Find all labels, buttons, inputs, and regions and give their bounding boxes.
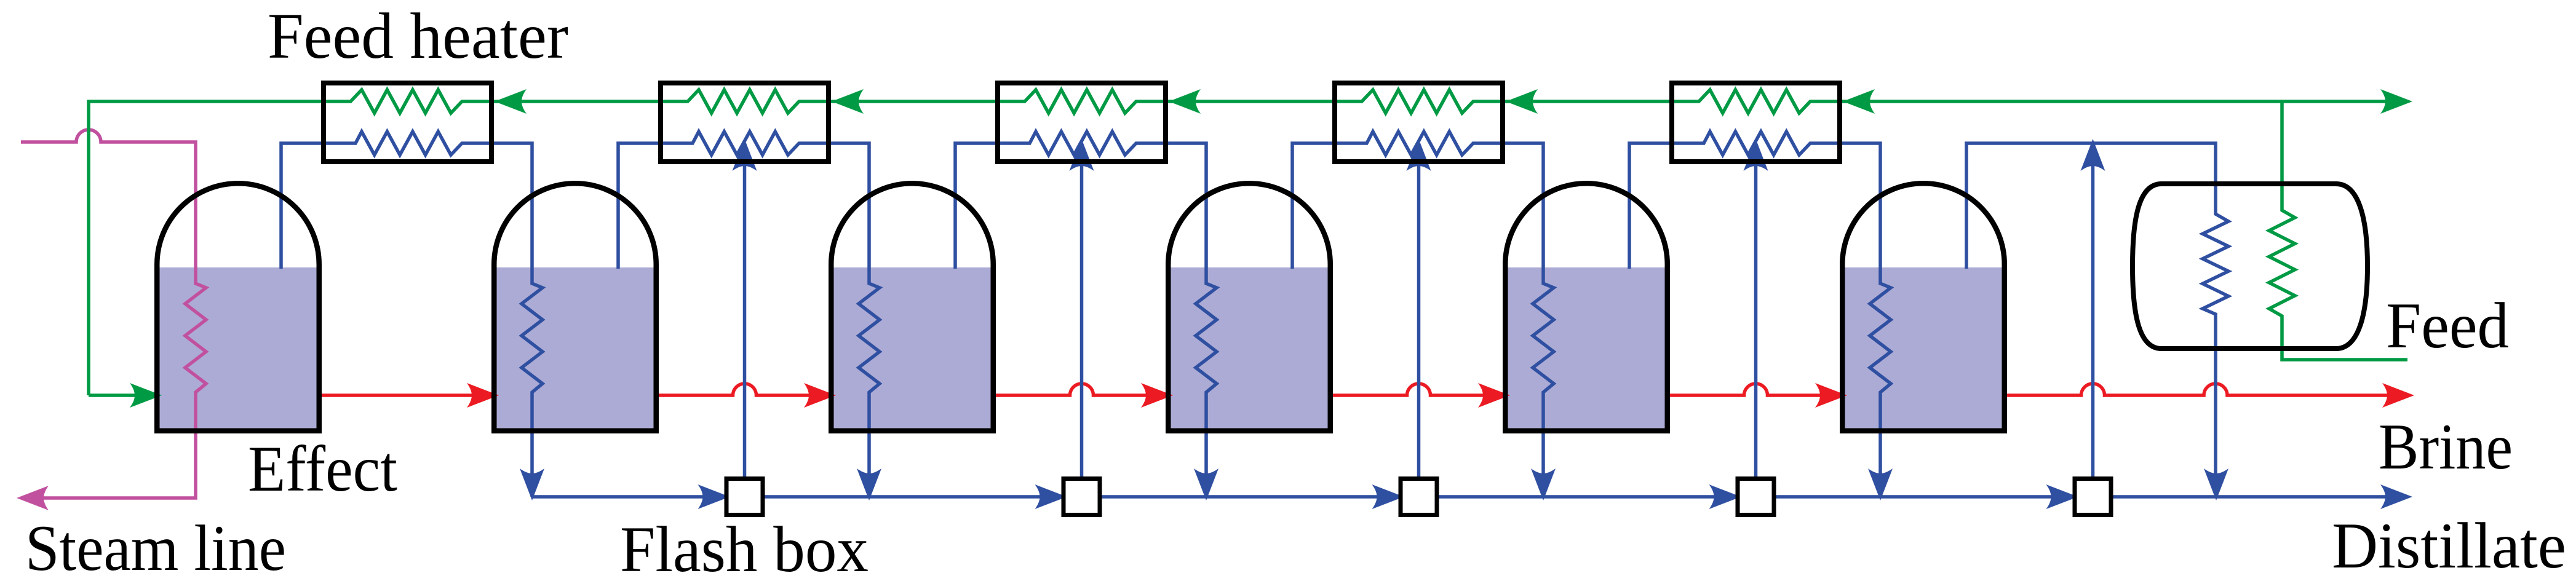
arrow: green feed into feed heater 2 [832,89,864,114]
feed heater 4 box [1335,83,1503,162]
arrow: green feed into feed heater 5 [1843,89,1875,114]
arrow: blue distillate into flash box 5 [2046,484,2078,509]
svg-text:Feed heater: Feed heater [268,0,568,72]
svg-text:Effect: Effect [248,433,397,505]
effect 3 vessel outline [831,183,993,431]
wire: blue distillate header line [532,495,2405,499]
arrow: green vapor into effect 1 [130,383,162,408]
wire: blue riser from flash box 4 up to heater coil [1754,148,1758,480]
svg-text:Distillate: Distillate [2332,510,2566,581]
arrow: blue vapor up from flash box 5 [2081,139,2105,171]
arrow: green cooling water reject (right) [2380,89,2412,114]
arrow: blue condensate down into distillate line (5) [1868,468,1893,500]
condenser vessel outline [2133,184,2367,349]
wire: magenta steam line with hop over green, coil in effect 1, return to left arrow [21,130,206,498]
feed heater 2 box [661,83,829,162]
effect 6 vessel outline [1842,183,2005,431]
arrow: red brine into effect 6 [1815,383,1847,408]
wire: blue riser from flash box 1 up to heater coil [743,148,747,480]
svg-text:Flash box: Flash box [620,513,869,581]
wire: blue riser from flash box 2 up to heater coil [1080,148,1084,480]
effect 5 vessel outline [1505,183,1668,431]
arrow: red brine into effect 5 [1478,383,1510,408]
wire: blue vapor line effect 2 -> feed heater 2 coil -> coil in effect 3 -> distillate [618,132,880,497]
wire: red brine line between effects with hops [319,384,2407,395]
arrow: green feed into feed heater 1 [495,89,527,114]
flash box 4 [1738,479,1774,515]
arrow: blue distillate into flash box 3 [1372,484,1404,509]
svg-text:Brine: Brine [2379,411,2513,483]
wire: green inlet into effect 1 [89,393,155,397]
effect 3 brine liquid fill [834,267,991,429]
flash box 2 [1063,479,1100,515]
arrow: green feed into feed heater 4 [1506,89,1538,114]
wire: blue vapor line effect 1 -> feed heater 1 coil -> coil in effect 2 -> distillate [281,132,543,497]
arrow: red brine into effect 3 [804,383,836,408]
node: green junction down to condenser coil and feed inlet [2269,101,2407,360]
effect 4 vessel outline [1168,183,1330,431]
arrow: blue vapor up from flash box 4 [1744,139,1768,171]
arrow: steam line outlet (left) [17,486,49,510]
wire: green feed line from effect 1 inlet up and across all feed heaters [89,90,2405,395]
arrow: blue condensate down into distillate line (3) [1194,468,1218,500]
arrow: red brine into effect 2 [467,383,499,408]
effect 1 brine liquid fill [160,267,317,429]
arrow: blue condensate down into distillate line (6) [2204,468,2228,500]
arrow: blue distillate into flash box 2 [1035,484,1067,509]
effect 2 vessel outline [494,183,656,431]
flash box 1 [726,479,763,515]
wire: blue riser from flash box 3 up to heater coil [1417,148,1421,480]
arrow: blue vapor up from flash box 1 [733,139,757,171]
arrow: red brine into effect 4 [1141,383,1173,408]
effect 5 brine liquid fill [1508,267,1665,429]
wire: blue vapor line effect 4 -> feed heater 4 coil -> coil in effect 5 -> distillate [1292,132,1554,497]
arrow: blue distillate into flash box 4 [1709,484,1741,509]
feed heater 1 box [324,83,491,162]
feed heater 5 box [1672,83,1840,162]
arrow: blue condensate down into distillate line (4) [1531,468,1556,500]
effect 4 brine liquid fill [1171,267,1328,429]
effect 6 brine liquid fill [1845,267,2002,429]
wire: blue vapor line effect 6 -> condenser coil -> distillate [1966,143,2228,497]
svg-text:Feed: Feed [2386,290,2509,362]
flash box 3 [1401,479,1437,515]
wire: blue vapor line effect 3 -> feed heater 3 coil -> coil in effect 4 -> distillate [955,132,1217,497]
wire: blue vapor line effect 5 -> feed heater 5 coil -> coil in effect 6 -> distillate [1629,132,1891,497]
arrow: blue vapor up from flash box 3 [1407,139,1431,171]
effect 2 brine liquid fill [497,267,654,429]
flash box 5 [2075,479,2111,515]
arrow: blue condensate down into distillate line (2) [857,468,881,500]
effect 1 vessel outline [157,183,319,430]
arrow: blue condensate down into distillate line (1) [520,468,544,500]
arrow: green feed into feed heater 3 [1169,89,1201,114]
arrow: blue distillate outlet (right) [2380,484,2412,509]
wire: blue riser from flash box 5 up to heater coil [2091,148,2095,480]
feed heater 3 box [998,83,1166,162]
arrow: blue vapor up from flash box 2 [1070,139,1094,171]
arrow: blue distillate into flash box 1 [698,484,730,509]
arrow: red brine outlet (right) [2382,383,2414,408]
svg-text:Steam line: Steam line [25,512,286,581]
